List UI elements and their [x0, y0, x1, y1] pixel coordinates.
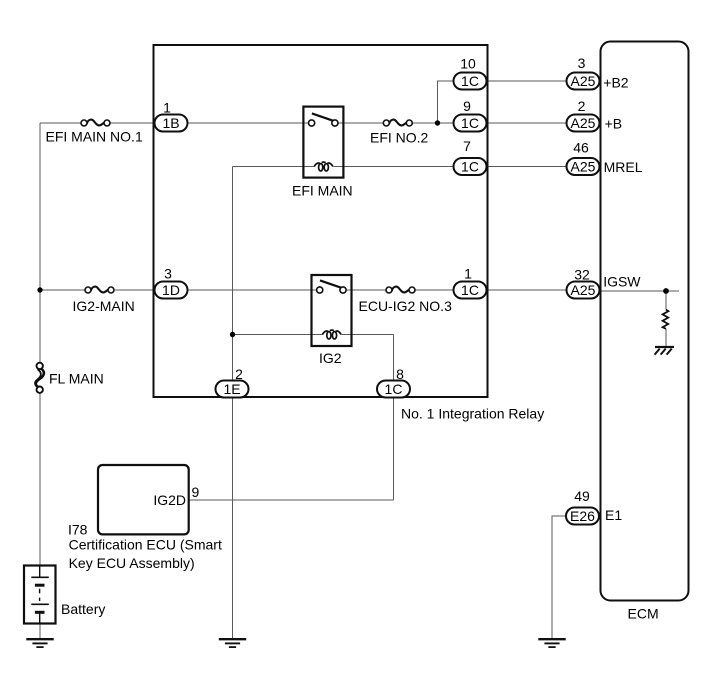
svg-text:A25: A25	[571, 115, 596, 131]
fuse EFI MAIN NO.1	[81, 120, 110, 126]
wire IG2 coil line from junction	[233, 334, 323, 336]
IG2 relay contact left	[317, 287, 323, 293]
svg-text:+B: +B	[605, 116, 623, 132]
wire resistor to chassis ground	[665, 329, 667, 346]
ground (E1)	[538, 639, 565, 647]
connector 1C pin 9	[454, 98, 487, 132]
connector A25 pin 2	[567, 98, 600, 132]
svg-text:1: 1	[163, 100, 171, 116]
junction node IGSW pull-down	[663, 288, 669, 294]
svg-text:EFI NO.2: EFI NO.2	[370, 129, 429, 145]
EFI MAIN relay coil	[314, 162, 333, 171]
I78 Certification ECU box	[98, 465, 189, 534]
fuse IG2-MAIN	[85, 287, 114, 293]
wire IG2 coil to 1C pin 8	[342, 335, 394, 389]
svg-text:EFI MAIN NO.1: EFI MAIN NO.1	[46, 128, 143, 144]
svg-text:IGSW: IGSW	[603, 274, 641, 290]
ground (battery)	[26, 639, 53, 647]
svg-text:9: 9	[463, 98, 471, 114]
svg-text:E1: E1	[605, 507, 622, 523]
svg-text:Key ECU Assembly): Key ECU Assembly)	[69, 555, 195, 571]
fusible link FL MAIN	[35, 363, 44, 393]
wire 1C pin 8 down to IG2D	[393, 397, 395, 501]
svg-text:IG2D: IG2D	[153, 492, 186, 508]
wire relay coils common vertical	[232, 167, 234, 389]
svg-text:FL MAIN: FL MAIN	[49, 370, 104, 386]
svg-text:IG2: IG2	[319, 350, 342, 366]
svg-text:3: 3	[164, 266, 172, 282]
wire +B2 branch: 1C pin 10 left and down to junction	[438, 81, 454, 123]
wire +B line: fuse to connector 1B	[110, 122, 155, 124]
svg-text:7: 7	[463, 138, 471, 154]
IG2 relay contact right	[340, 287, 346, 293]
wire battery feed vertical lower	[39, 393, 41, 566]
svg-text:A25: A25	[571, 159, 596, 175]
svg-text:No. 1 Integration Relay: No. 1 Integration Relay	[401, 406, 544, 422]
EFI MAIN relay blade	[312, 113, 333, 120]
relay IG2 box	[312, 275, 352, 346]
connector 1C pin 7	[454, 138, 487, 175]
connector 1D pin 3	[155, 266, 188, 299]
svg-text:Battery: Battery	[61, 601, 105, 617]
wire IGSW line: 1C pin 1 to ECM A25 pin 32	[487, 289, 567, 291]
svg-text:A25: A25	[571, 282, 596, 298]
svg-text:1C: 1C	[461, 115, 479, 131]
fuse EFI NO.2	[383, 120, 412, 126]
wire 1E to ground	[232, 397, 234, 639]
svg-text:1C: 1C	[461, 73, 479, 89]
junction node at fuse EFI NO.2 / 1C10 branch	[435, 120, 440, 125]
svg-text:2: 2	[578, 98, 586, 114]
connector 1C pin 10	[454, 56, 487, 90]
svg-text:1C: 1C	[461, 159, 479, 175]
connector 1C pin 1	[454, 266, 487, 299]
resistor (IGSW pull-down in ECM)	[663, 310, 669, 329]
svg-text:ECU-IG2 NO.3: ECU-IG2 NO.3	[359, 298, 453, 314]
svg-text:32: 32	[574, 267, 590, 283]
connector A25 pin 46	[567, 140, 600, 176]
junction node battery feed / IGSW line	[37, 287, 42, 292]
IG2 relay coil	[322, 330, 341, 339]
svg-text:+B2: +B2	[603, 75, 629, 91]
svg-text:10: 10	[460, 56, 476, 72]
ECM outline box	[601, 42, 689, 601]
wire IGSW inside ECM	[600, 290, 680, 292]
svg-text:ECM: ECM	[628, 606, 659, 622]
svg-text:E26: E26	[570, 508, 595, 524]
ground (1E)	[219, 639, 246, 647]
wire IGSW line: fuse to connector 1D	[115, 289, 155, 291]
wire battery to ground	[39, 624, 41, 639]
svg-text:Certification ECU (Smart: Certification ECU (Smart	[69, 537, 222, 553]
wire +B line: 1C pin 9 to ECM A25 pin 2	[487, 122, 567, 124]
connector A25 pin 3	[567, 55, 600, 90]
svg-text:8: 8	[396, 366, 404, 382]
svg-text:9: 9	[192, 484, 200, 500]
wire +B line: battery node to fuse EFI MAIN NO.1	[40, 122, 81, 124]
wire IGSW line: fuse to connector 1C pin 1	[415, 289, 454, 291]
IG2 relay blade	[320, 280, 341, 287]
connector 1E pin 2	[216, 366, 249, 398]
svg-text:EFI MAIN: EFI MAIN	[292, 182, 353, 198]
wire +B line: 1B to EFI MAIN relay contact	[188, 122, 309, 124]
wire IG2D horizontal	[189, 499, 394, 501]
svg-text:1: 1	[464, 266, 472, 282]
wire MREL: relay coil to connector 1C pin 7	[333, 166, 453, 168]
EFI MAIN relay contact left	[309, 120, 315, 126]
svg-text:49: 49	[574, 488, 590, 504]
wire +B2 line: 1C pin 10 to ECM A25 pin 3	[487, 80, 567, 82]
svg-text:1B: 1B	[162, 115, 179, 131]
connector 1B pin 1	[155, 100, 188, 132]
svg-text:1D: 1D	[162, 282, 180, 298]
wire MREL: 1C pin 7 to ECM A25 pin 46	[487, 166, 567, 168]
wire +B line: relay contact to fuse EFI NO.2	[338, 122, 383, 124]
wire IGSW line: battery node to fuse IG2-MAIN	[40, 289, 85, 291]
wire IGSW line: relay contact to fuse ECU-IG2 NO.3	[346, 289, 386, 291]
wire E1 to ground	[552, 516, 566, 638]
relay EFI MAIN box	[303, 107, 343, 178]
wire battery feed vertical upper	[39, 123, 41, 363]
svg-text:IG2-MAIN: IG2-MAIN	[73, 298, 135, 314]
svg-text:3: 3	[578, 55, 586, 71]
wire +B line: fuse EFI NO.2 to connector 1C pin 9	[412, 122, 453, 124]
svg-text:46: 46	[573, 140, 589, 156]
svg-text:I78: I78	[68, 522, 88, 538]
svg-text:1E: 1E	[223, 381, 240, 397]
svg-text:1C: 1C	[385, 381, 403, 397]
wire IGSW line: 1D to IG2 relay contact	[188, 289, 317, 291]
battery	[24, 566, 56, 624]
connector A25 pin 32	[567, 267, 600, 299]
connector 1C pin 8	[377, 366, 410, 398]
No. 1 Integration Relay outline box	[154, 45, 488, 397]
EFI MAIN relay contact right	[332, 120, 338, 126]
svg-text:2: 2	[235, 366, 243, 382]
junction node relay coil common	[230, 332, 235, 337]
connector E26 pin 49	[566, 488, 599, 525]
wire IGSW pull-down upper	[665, 291, 667, 310]
wire MREL: coil node to EFI MAIN relay coil	[233, 166, 315, 168]
chassis ground (ECM internal)	[655, 347, 674, 355]
svg-text:A25: A25	[571, 73, 596, 89]
svg-text:MREL: MREL	[604, 159, 643, 175]
fuse ECU-IG2 NO.3	[386, 287, 415, 293]
svg-text:1C: 1C	[461, 282, 479, 298]
